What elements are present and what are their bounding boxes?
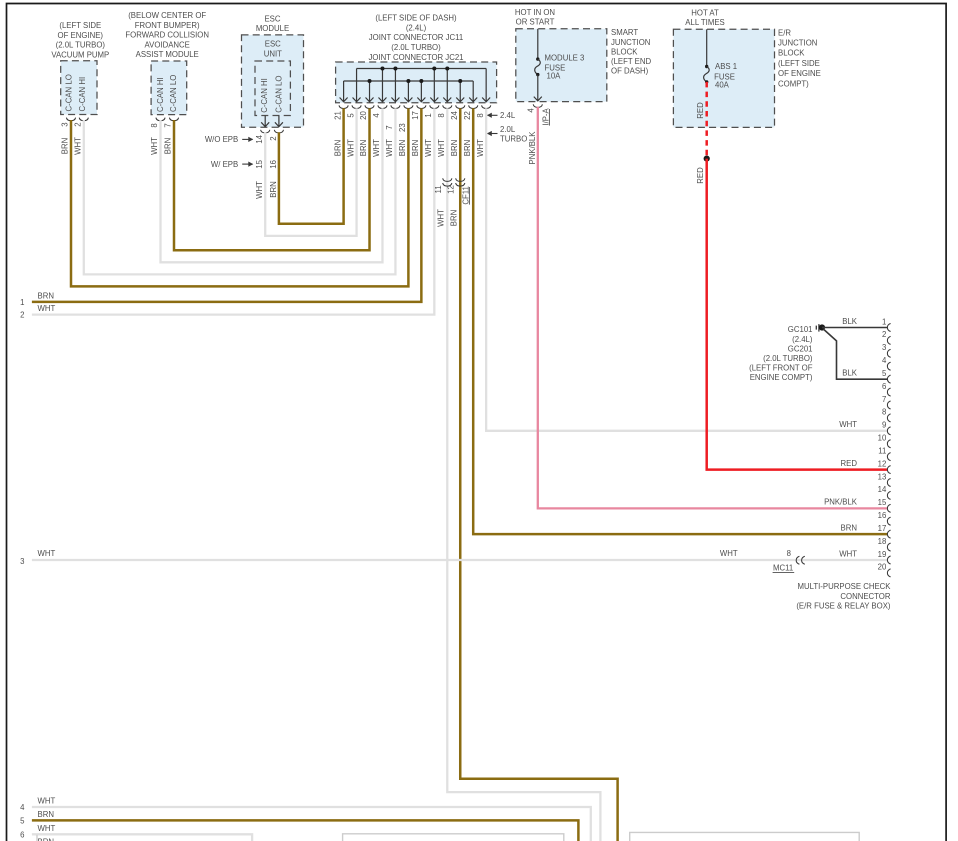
ESC unit internal arrow (C-CAN LO) <box>275 116 283 127</box>
svg-text:6: 6 <box>20 830 24 839</box>
svg-text:HOT AT: HOT AT <box>691 8 719 17</box>
svg-text:BRN: BRN <box>463 140 472 156</box>
ground GC101/GC201 with ground symbol <box>749 324 825 382</box>
JC junction dot on lower bus at pin 3 <box>368 79 372 83</box>
svg-text:WHT: WHT <box>38 549 56 558</box>
joint connector JC11/JC21 box (left side of dash) <box>336 14 497 103</box>
ESC module pin 2/16 (C-CAN LO) <box>269 130 284 169</box>
check connector pin 1 <box>882 317 891 331</box>
JC junction dot on upper bus at pin 4 <box>380 67 384 71</box>
svg-text:3: 3 <box>882 343 886 352</box>
JC internal arrow to pin position 6 <box>404 81 412 102</box>
svg-text:2: 2 <box>20 311 24 320</box>
connector box: FORWARD COLLISION AVOIDANCE ASSIST MODULE (below center of front bumper) <box>125 11 209 114</box>
svg-text:WHT: WHT <box>839 420 857 429</box>
JC internal arrow to pin position 1 <box>340 81 348 102</box>
connector box: VACUUM PUMP (left side of engine, 2.0L turbo) <box>51 21 109 114</box>
svg-text:ESC: ESC <box>264 15 280 24</box>
svg-text:HOT IN ON: HOT IN ON <box>515 8 555 17</box>
off-page wire 2 WHT to JC pin 8 <box>32 108 434 314</box>
check connector pin 11 <box>878 446 890 460</box>
svg-text:SMART: SMART <box>611 28 638 37</box>
svg-text:BLK: BLK <box>842 317 858 326</box>
svg-text:WHT: WHT <box>38 797 56 806</box>
svg-text:C-CAN HI: C-CAN HI <box>78 77 87 112</box>
svg-text:RED: RED <box>696 102 705 119</box>
svg-text:C-CAN HI: C-CAN HI <box>156 77 165 112</box>
JC junction dot on upper bus at pin 5 <box>393 67 397 71</box>
svg-text:7: 7 <box>164 123 173 127</box>
svg-text:17: 17 <box>878 524 887 533</box>
off-page wire 3 WHT through MC11 to check connector pin 19 <box>32 559 887 561</box>
svg-text:WHT: WHT <box>437 139 446 157</box>
pin 7 of FCA module (C-CAN LO) <box>164 118 179 128</box>
svg-text:BRN: BRN <box>450 140 459 156</box>
svg-text:19: 19 <box>878 550 887 559</box>
svg-text:BLK: BLK <box>842 369 858 378</box>
svg-text:C-CAN LO: C-CAN LO <box>169 75 178 112</box>
svg-text:WHT: WHT <box>839 549 857 558</box>
svg-text:(2.0L TURBO): (2.0L TURBO) <box>391 43 441 52</box>
svg-text:BLOCK: BLOCK <box>611 47 638 56</box>
svg-text:4: 4 <box>882 356 887 365</box>
smart junction block box with MODULE 3 FUSE 10A <box>516 29 607 102</box>
svg-text:2: 2 <box>74 122 83 126</box>
pin 2 of vacuum pump (C-CAN HI) <box>74 118 89 127</box>
svg-text:RED: RED <box>696 167 705 184</box>
JC internal arrow to pin position 12 <box>482 69 490 102</box>
module box: ESC MODULE containing ESC UNIT <box>242 15 304 128</box>
inline connector CF11 pin 11 on WHT wire <box>434 178 452 193</box>
check connector pin 8 <box>882 408 891 422</box>
check connector pin 13 <box>878 472 891 486</box>
long wire WHT from JC pin 9 through CF11 pin 11 to bottom module <box>447 108 600 841</box>
wire WHT from JC pin 12 to check connector pin 9 <box>486 108 887 431</box>
svg-text:ENGINE COMPT): ENGINE COMPT) <box>750 373 813 382</box>
smart junction block label <box>611 28 652 75</box>
svg-text:8: 8 <box>437 113 446 117</box>
JC junction dot on lower bus at pin 10 <box>458 79 462 83</box>
JC pin 22 with half-circle <box>463 105 478 119</box>
svg-text:BRN: BRN <box>38 291 54 300</box>
svg-text:4: 4 <box>20 803 25 812</box>
svg-text:6: 6 <box>882 382 886 391</box>
svg-text:BRN: BRN <box>449 210 458 226</box>
svg-text:16: 16 <box>269 160 278 169</box>
svg-text:FORWARD COLLISION: FORWARD COLLISION <box>125 31 209 40</box>
JC pin 8 with half-circle <box>476 105 491 117</box>
wire BLK from ground GC101 to check connector pin 1 <box>822 327 887 329</box>
svg-text:ALL TIMES: ALL TIMES <box>685 18 724 27</box>
check connector pin 7 <box>882 395 891 409</box>
svg-text:C-CAN LO: C-CAN LO <box>65 74 74 111</box>
JC internal arrow to pin position 5 <box>391 69 399 102</box>
svg-text:14: 14 <box>878 485 887 494</box>
SJB output pin 4 (I/P-A) <box>527 104 543 112</box>
JC pin 21 with half-circle <box>333 105 348 119</box>
svg-text:10: 10 <box>878 434 887 443</box>
JC pin 1 with half-circle <box>424 105 439 117</box>
svg-text:8: 8 <box>150 123 159 127</box>
off-page wire 6 WHT to bottom module <box>32 834 252 841</box>
svg-text:BRN: BRN <box>61 138 70 154</box>
svg-text:10A: 10A <box>547 71 562 80</box>
svg-text:VACUUM PUMP: VACUUM PUMP <box>51 50 109 59</box>
svg-text:5: 5 <box>882 369 887 378</box>
power feed label HOT AT ALL TIMES <box>685 8 724 27</box>
svg-text:14: 14 <box>255 134 264 143</box>
svg-text:3: 3 <box>61 122 70 126</box>
svg-text:BRN: BRN <box>398 140 407 156</box>
svg-text:BRN: BRN <box>359 140 368 156</box>
svg-text:TURBO: TURBO <box>500 134 527 143</box>
svg-text:PNK/BLK: PNK/BLK <box>528 131 537 165</box>
svg-text:4: 4 <box>372 113 381 118</box>
svg-text:BRN: BRN <box>333 140 342 156</box>
svg-text:WHT: WHT <box>38 304 56 313</box>
JC internal arrow to pin position 8 <box>430 69 438 102</box>
pin 3 of vacuum pump (C-CAN LO) <box>61 118 76 127</box>
connector name MC11 underlined <box>773 564 795 573</box>
check connector pin 9 <box>882 421 891 435</box>
svg-text:BRN: BRN <box>38 810 54 819</box>
svg-text:24: 24 <box>450 111 459 120</box>
off-page wire 5 BRN to bottom module <box>32 820 579 841</box>
svg-text:(LEFT SIDE OF DASH): (LEFT SIDE OF DASH) <box>375 14 457 23</box>
wire BLK from ground GC101 to check connector pin 5 <box>823 329 887 379</box>
svg-text:WHT: WHT <box>385 139 394 157</box>
check connector pin 20 <box>878 563 891 577</box>
svg-text:E/R: E/R <box>778 28 791 37</box>
check connector pin 4 <box>882 356 891 370</box>
check connector pin 5 <box>882 369 891 383</box>
JC junction dot on lower bus at pin 7 <box>419 79 423 83</box>
annotation arrow 2.4L (pin row 1) <box>488 111 516 120</box>
svg-text:(2.4L): (2.4L) <box>406 23 427 32</box>
annotation W/O EPB with arrow <box>205 135 253 144</box>
svg-text:5: 5 <box>346 113 355 118</box>
svg-text:17: 17 <box>411 111 420 120</box>
svg-text:W/ EPB: W/ EPB <box>211 160 238 169</box>
svg-text:13: 13 <box>878 472 887 481</box>
svg-text:BRN: BRN <box>841 524 857 533</box>
JC junction dot on upper bus at pin 8 <box>432 67 436 71</box>
svg-text:WHT: WHT <box>38 824 56 833</box>
svg-text:22: 22 <box>463 111 472 120</box>
svg-text:(LEFT SIDE: (LEFT SIDE <box>778 59 820 68</box>
fuse MODULE 3 element <box>534 29 542 101</box>
JC internal arrow to pin position 11 <box>469 81 477 102</box>
wire BRN from JC pin 11 to check connector pin 17 <box>473 108 887 534</box>
svg-text:W/O EPB: W/O EPB <box>205 135 238 144</box>
svg-text:BLOCK: BLOCK <box>778 49 805 58</box>
svg-text:BRN: BRN <box>164 138 173 154</box>
check connector pin 10 <box>878 434 891 448</box>
power feed label HOT IN ON OR START <box>515 8 555 27</box>
wire WHT from FCA module pin 8 to JC pin 4 <box>161 108 383 262</box>
check connector pin 15 <box>878 498 891 512</box>
svg-text:(LEFT SIDE: (LEFT SIDE <box>59 21 101 30</box>
svg-text:OR START: OR START <box>516 18 555 27</box>
svg-text:11: 11 <box>434 185 443 193</box>
JC junction dot on lower bus at pin 6 <box>406 79 410 83</box>
svg-text:(LEFT FRONT OF: (LEFT FRONT OF <box>749 364 813 373</box>
svg-text:2.4L: 2.4L <box>500 111 516 120</box>
svg-text:(2.0L TURBO): (2.0L TURBO) <box>763 354 813 363</box>
check connector pin 14 <box>878 485 891 499</box>
ESC module pin 14/15 (C-CAN HI) <box>255 130 270 169</box>
JC pin 23 with half-circle <box>398 105 413 132</box>
check connector pin 12 <box>878 459 891 473</box>
svg-text:2: 2 <box>882 330 886 339</box>
svg-text:BRN: BRN <box>38 837 54 841</box>
JC internal arrow to pin position 3 <box>366 81 374 102</box>
svg-text:BRN: BRN <box>411 140 420 156</box>
svg-text:GC101: GC101 <box>788 325 813 334</box>
svg-text:1: 1 <box>882 317 886 326</box>
check connector pin 16 <box>878 511 891 525</box>
splice junction dot on RED wire <box>704 156 710 162</box>
svg-text:FRONT BUMPER): FRONT BUMPER) <box>135 21 200 30</box>
svg-text:16: 16 <box>878 511 887 520</box>
annotation arrow 2.0L TURBO (pin row 2) <box>488 125 528 143</box>
svg-text:1: 1 <box>20 298 24 307</box>
svg-text:12: 12 <box>878 459 887 468</box>
off-page wire 1 BRN to JC pin 7 <box>32 108 421 302</box>
svg-text:12: 12 <box>447 185 456 194</box>
JC pin 20 with half-circle <box>359 105 374 119</box>
svg-text:JOINT CONNECTOR JC21: JOINT CONNECTOR JC21 <box>368 53 463 62</box>
svg-text:WHT: WHT <box>74 137 83 155</box>
JC junction dot on upper bus at pin 9 <box>445 67 449 71</box>
svg-text:WHT: WHT <box>372 139 381 157</box>
JC internal arrow to pin position 10 <box>456 81 464 102</box>
wire BRN from vacuum pump pin 3 to JC pin 6 <box>71 108 408 286</box>
svg-text:WHT: WHT <box>436 209 445 227</box>
inline connector MC11 pin 8 on wire 3 <box>787 549 805 564</box>
check connector pin 19 <box>878 550 891 564</box>
svg-text:JUNCTION: JUNCTION <box>611 38 650 47</box>
inline connector CF11 pin 12 on BRN wire <box>447 178 465 194</box>
svg-text:WHT: WHT <box>150 137 159 155</box>
svg-text:1: 1 <box>424 113 433 117</box>
svg-text:ABS 1: ABS 1 <box>715 62 737 71</box>
check connector pin 3 <box>882 343 891 357</box>
JC pin 7 with half-circle <box>385 105 400 129</box>
off-page wire 4 WHT to bottom module <box>32 807 591 841</box>
connector name I/P-A underlined <box>541 107 550 125</box>
svg-text:4: 4 <box>527 108 536 113</box>
svg-text:OF ENGINE): OF ENGINE) <box>58 31 104 40</box>
check connector pin 6 <box>882 382 891 396</box>
svg-text:JOINT CONNECTOR JC11: JOINT CONNECTOR JC11 <box>369 33 463 42</box>
svg-text:RED: RED <box>841 459 858 468</box>
JC internal arrow to pin position 2 <box>353 69 361 102</box>
annotation W/ EPB with arrow <box>211 160 253 169</box>
svg-text:3: 3 <box>20 557 24 566</box>
svg-text:15: 15 <box>255 159 264 168</box>
svg-text:C-CAN LO: C-CAN LO <box>275 76 284 113</box>
svg-text:20: 20 <box>359 111 368 120</box>
wire BRN from ESC module pin 2/16 to JC pin 1 <box>279 108 344 224</box>
ESC unit internal arrow (C-CAN HI) <box>261 116 269 127</box>
svg-text:20: 20 <box>878 563 887 572</box>
JC pin 5 with half-circle <box>346 105 361 117</box>
svg-text:OF DASH): OF DASH) <box>611 67 649 76</box>
svg-text:18: 18 <box>878 537 887 546</box>
JC pin 17 with half-circle <box>411 105 426 119</box>
svg-text:WHT: WHT <box>424 139 433 157</box>
svg-text:8: 8 <box>787 549 791 558</box>
JC internal arrow to pin position 9 <box>443 69 451 102</box>
E/R junction block box with ABS 1 FUSE 40A <box>673 29 774 127</box>
svg-text:COMPT): COMPT) <box>778 79 809 88</box>
svg-text:23: 23 <box>398 123 407 132</box>
svg-text:2.0L: 2.0L <box>500 125 516 134</box>
JC pin 4 with half-circle <box>372 105 387 117</box>
svg-text:JUNCTION: JUNCTION <box>778 39 817 48</box>
svg-text:BRN: BRN <box>269 181 278 197</box>
svg-text:MODULE 3: MODULE 3 <box>545 54 585 63</box>
E/R junction block label <box>778 28 821 88</box>
svg-text:WHT: WHT <box>255 181 264 199</box>
svg-text:MC11: MC11 <box>773 564 793 573</box>
svg-text:8: 8 <box>882 408 886 417</box>
wire BRN from FCA module pin 7 to JC pin 3 <box>174 108 370 250</box>
svg-text:C-CAN HI: C-CAN HI <box>260 78 269 113</box>
svg-text:(2.0L TURBO): (2.0L TURBO) <box>56 41 106 50</box>
JC internal arrow to pin position 7 <box>417 81 425 102</box>
svg-text:ESC: ESC <box>265 40 281 49</box>
svg-text:(LEFT END: (LEFT END <box>611 57 652 66</box>
svg-text:21: 21 <box>333 111 342 120</box>
svg-text:7: 7 <box>882 395 886 404</box>
svg-text:PNK/BLK: PNK/BLK <box>824 498 858 507</box>
wire RED from splice to check connector pin 12 <box>707 159 888 470</box>
svg-text:5: 5 <box>20 816 25 825</box>
connector name CF11 underlined <box>461 186 470 205</box>
svg-text:WHT: WHT <box>720 549 738 558</box>
svg-text:OF ENGINE: OF ENGINE <box>778 69 821 78</box>
bottom module box B (cut off) <box>343 834 564 841</box>
bottom module box A (cut off) <box>36 835 38 841</box>
fuse ABS 1 element <box>704 29 710 83</box>
svg-text:MULTI-PURPOSE CHECK: MULTI-PURPOSE CHECK <box>798 582 892 591</box>
svg-text:9: 9 <box>882 421 886 430</box>
dashed RED wire from ABS 1 fuse inside E/R junction block <box>705 82 708 159</box>
svg-text:ASSIST MODULE: ASSIST MODULE <box>136 50 199 59</box>
bottom module box C (cut off) <box>630 832 860 841</box>
svg-text:GC201: GC201 <box>788 344 813 353</box>
wire WHT from ESC module pin 14/15 to JC pin 2 <box>265 108 356 236</box>
wire PNK/BLK from SJB fuse to check connector pin 15 <box>538 107 888 509</box>
svg-text:MODULE: MODULE <box>256 24 289 33</box>
label multi-purpose check connector <box>796 582 891 611</box>
svg-text:(E/R FUSE & RELAY BOX): (E/R FUSE & RELAY BOX) <box>796 601 891 610</box>
svg-text:(BELOW CENTER OF: (BELOW CENTER OF <box>128 11 206 20</box>
JC pin 8 with half-circle <box>437 105 452 117</box>
svg-text:WHT: WHT <box>476 139 485 157</box>
svg-text:40A: 40A <box>715 80 730 89</box>
svg-text:7: 7 <box>385 125 394 129</box>
svg-text:2: 2 <box>269 136 278 140</box>
svg-text:CONNECTOR: CONNECTOR <box>840 592 890 601</box>
JC internal arrow to pin position 4 <box>378 69 386 102</box>
check connector pin 18 <box>878 537 891 551</box>
svg-text:8: 8 <box>476 113 485 117</box>
JC upper bus bar (pins 2,4,5,8,9,12) <box>357 68 487 70</box>
svg-text:AVOIDANCE: AVOIDANCE <box>145 40 190 49</box>
svg-text:UNIT: UNIT <box>264 49 282 58</box>
long wire BRN from JC pin 10 through CF11 pin 12 to bottom module <box>460 108 617 841</box>
wire WHT from vacuum pump pin 2 to JC pin 5 <box>84 108 396 274</box>
svg-text:WHT: WHT <box>346 139 355 157</box>
svg-text:(2.4L): (2.4L) <box>792 335 813 344</box>
check connector pin 2 <box>882 330 891 344</box>
JC pin 24 with half-circle <box>450 105 465 119</box>
pin 8 of FCA module (C-CAN HI) <box>150 118 165 128</box>
svg-text:15: 15 <box>878 498 887 507</box>
JC lower bus bar (pins 1,3,6,7,10,11) <box>344 80 474 82</box>
check connector pin 17 <box>878 524 891 538</box>
svg-text:11: 11 <box>878 446 886 455</box>
